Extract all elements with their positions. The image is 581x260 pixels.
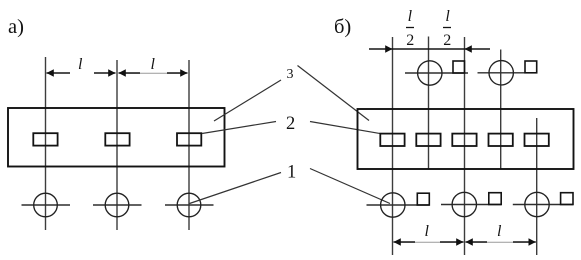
lamp A2 — [93, 193, 142, 217]
dimension label l (a, span 2-3) — [151, 56, 156, 73]
lamp B5 — [513, 192, 573, 216]
leader 1 left — [190, 173, 282, 204]
ballast box A2 — [105, 133, 129, 145]
ballast box A1 — [33, 133, 57, 145]
svg-text:2: 2 — [406, 32, 414, 49]
dimension l (b bottom, span 3-5) — [466, 238, 536, 246]
svg-text:l: l — [497, 223, 502, 240]
dimension l (b bottom, span 1-3) — [394, 238, 464, 246]
lamp T2 — [478, 61, 538, 85]
callout label 2 — [286, 114, 295, 134]
column line A3 — [188, 60, 190, 230]
band rectangle a — [8, 108, 225, 167]
dimension label l (b, span 1-3) — [425, 223, 430, 240]
column line A1 — [45, 57, 47, 230]
leader 2 left — [202, 122, 276, 134]
lamp B3 — [441, 192, 501, 216]
dimension l/2 l/2 (b top) — [369, 45, 490, 53]
svg-text:1: 1 — [287, 163, 296, 183]
callout label 3 — [287, 67, 294, 82]
ballast box B5 — [525, 134, 549, 146]
label a) — [8, 16, 24, 38]
leader 3 right — [298, 66, 370, 121]
svg-text:б): б) — [334, 16, 351, 38]
dimension label l (a, span 1-2) — [78, 56, 83, 73]
dimension l (a, span 2-3) — [119, 69, 188, 77]
fraction label l/2 first — [406, 8, 414, 49]
svg-text:l: l — [78, 56, 83, 73]
leader 3 left — [214, 80, 281, 121]
column line B5 — [536, 118, 538, 255]
lamp A1 — [22, 193, 71, 217]
svg-text:l: l — [408, 8, 413, 25]
svg-text:2: 2 — [286, 114, 295, 134]
column line B3 — [464, 37, 466, 255]
ballast box B3 — [452, 134, 476, 146]
lamp A3 — [165, 193, 214, 217]
column line B4 — [500, 50, 502, 170]
ballast box B2 — [416, 134, 440, 146]
dimension label l (b, span 3-5) — [497, 223, 502, 240]
leader 1 right — [310, 169, 390, 204]
column line A2 — [116, 60, 118, 230]
leader 2 right — [310, 122, 381, 134]
ballast box A3 — [177, 133, 201, 145]
band rectangle b — [358, 109, 574, 169]
fraction label l/2 second — [443, 8, 451, 49]
svg-text:l: l — [425, 223, 430, 240]
lamp B1 — [367, 193, 430, 217]
callout label 1 — [287, 163, 296, 183]
svg-text:l: l — [151, 56, 156, 73]
svg-text:а): а) — [8, 16, 24, 38]
ballast box B1 — [380, 134, 404, 146]
dimension l (a, span 1-2) — [47, 69, 116, 77]
column line B1 — [392, 37, 394, 255]
column line B2 — [428, 37, 430, 170]
svg-text:l: l — [445, 8, 450, 25]
label b) — [334, 16, 351, 38]
ballast box B4 — [489, 134, 513, 146]
svg-text:3: 3 — [287, 67, 294, 82]
lamp T1 — [405, 61, 468, 85]
svg-text:2: 2 — [443, 32, 451, 49]
